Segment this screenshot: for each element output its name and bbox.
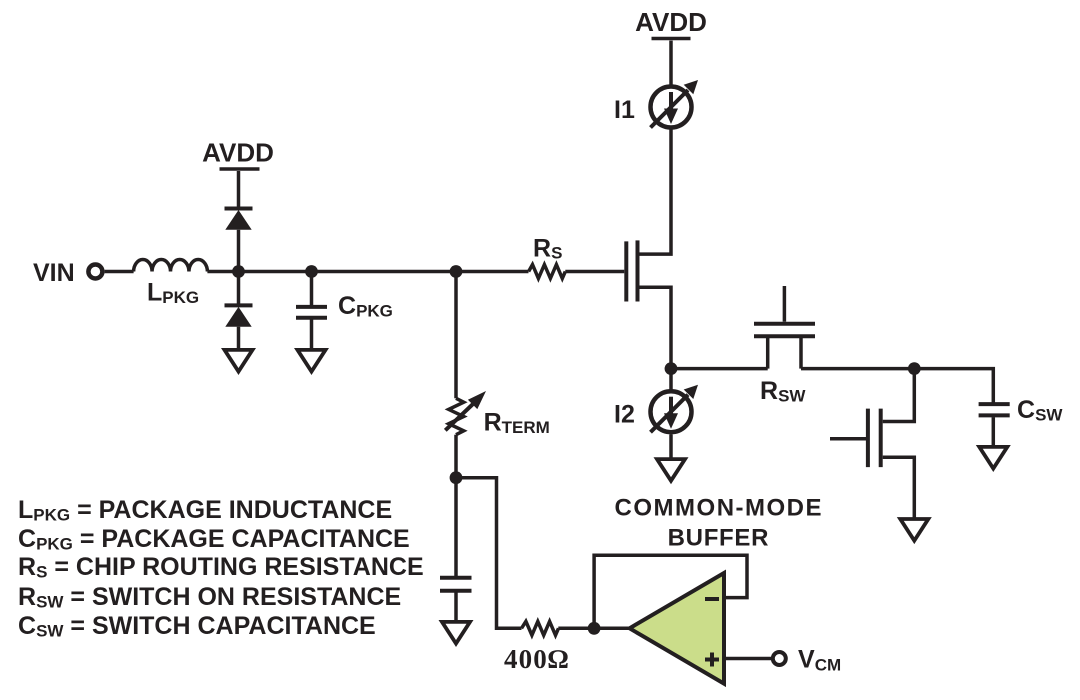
wire node B2 to I2 [669,369,673,390]
wire node C to resistor RS [456,270,529,274]
svg-text:400Ω: 400Ω [504,644,570,674]
capacitor CPKG [296,272,327,351]
wire node B2 to switch RSW [671,367,768,371]
svg-text:VIN: VIN [33,259,75,287]
power AVDD (top) [635,7,707,39]
svg-text:COMMON-MODE: COMMON-MODE [615,495,823,522]
wire inductor to node A [207,270,238,274]
transistor Q2 [830,369,914,520]
wire node E to op-amp output [594,627,630,631]
wire D2 to ground [237,327,241,350]
ground (input clamp) [225,350,253,372]
op-amp U1 (common-mode buffer) [630,573,725,684]
wire op-amp output to VCM terminal [726,657,773,661]
wire AVDD to diode D1 [237,171,241,209]
node C2 junction [908,362,921,375]
wire 400 ohm to node E [558,627,594,631]
svg-text:AVDD: AVDD [635,7,707,37]
inductor LPKG [134,259,208,271]
ground (Q2) [900,519,928,541]
wire node D to resistor 400 ohm [456,478,522,629]
ground (termination cap) [442,622,470,644]
ground (CPKG) [298,350,326,372]
resistor RS [529,265,566,279]
resistor RTERM (variable) [445,391,486,435]
diode D2 (ground to node) [225,305,253,326]
wire RS to Q1 gate [565,270,624,274]
power AVDD (input clamp) [202,138,274,170]
wire D1 to node A [237,230,241,272]
svg-text:RSW = SWITCH ON RESISTANCE: RSW = SWITCH ON RESISTANCE [18,583,401,612]
svg-text:CSW = SWITCH CAPACITANCE: CSW = SWITCH CAPACITANCE [18,612,376,641]
node B2 junction (Q1 source / I2 / RSW) [665,362,678,375]
node A junction [232,265,245,278]
current source I2 [651,385,699,433]
terminal VIN [88,265,102,279]
capacitor CSW [979,404,1010,447]
svg-text:I1: I1 [614,96,635,124]
wire AVDD to current source I1 [669,41,673,86]
transistor Q1 [626,129,671,369]
wire feedback (node E to inverting input) [594,555,747,628]
ground (CSW) [979,447,1007,469]
wire node C2 to capacitor CSW [914,369,993,404]
wire VIN to inductor [105,270,134,274]
node D junction [450,471,463,484]
wire node C to resistor RTERM [454,272,458,399]
terminal VCM [773,652,786,665]
svg-text:RS = CHIP ROUTING RESISTANCE: RS = CHIP ROUTING RESISTANCE [18,553,424,582]
capacitor (termination) [440,478,472,622]
label COMMON-MODE BUFFER [615,495,823,552]
wire I2 to ground [669,435,673,460]
legend [18,496,424,641]
current source I1 [651,80,699,128]
wire node A to node B [239,270,312,274]
wire node B to node C [312,270,457,274]
node C junction [450,265,463,278]
node B junction [305,265,318,278]
ground (I2) [657,459,685,481]
svg-text:I2: I2 [614,401,635,429]
wire RSW to node C2 [801,367,914,371]
svg-text:AVDD: AVDD [202,138,274,168]
wire node A to diode D2 [237,272,241,306]
svg-text:BUFFER: BUFFER [668,525,770,552]
diode D1 (node to AVDD) [225,209,253,230]
switch RSW (MOS switch) [754,286,815,369]
wire RTERM to node D [454,435,458,478]
svg-text:LPKG = PACKAGE INDUCTANCE: LPKG = PACKAGE INDUCTANCE [18,496,392,525]
resistor 400 ohm [522,621,559,635]
svg-text:CPKG = PACKAGE CAPACITANCE: CPKG = PACKAGE CAPACITANCE [18,525,410,554]
node E junction (buffer output) [588,622,601,635]
